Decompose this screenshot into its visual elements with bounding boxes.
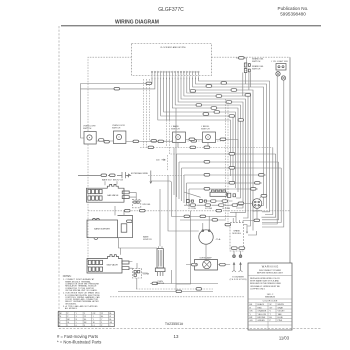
wires from upper valve fingers [129,192,136,199]
tiny labels under connector rows [188,208,231,210]
B3 label [171,125,180,131]
spark ignition switch plug pair upper [244,63,250,67]
oven light switch box [276,64,286,71]
wire from spark ign switch down [245,73,247,85]
wires to lower valve [120,248,147,273]
wire drops from pins to mid levels [167,120,177,154]
svg-text:GLGF377C: GLGF377C [158,7,184,13]
electronic range control ERC dashed box [132,44,212,76]
convection fan motor [252,199,262,213]
wire B3 to B4 with tags [186,138,203,141]
wire drops from left ERC pins [158,78,236,188]
tag left of spark module [225,223,231,226]
title underline / sheet top border [61,25,321,27]
wire into spark ignition switch [236,57,247,63]
lower gas valve assembly [87,255,122,273]
svg-text:5: 5 [76,322,77,324]
svg-text:CLOCK/ERC AND KEYPNL: CLOCK/ERC AND KEYPNL [160,46,187,49]
upper valve labels [102,179,124,186]
svg-text:12: 12 [101,313,103,315]
spark module output tags [231,247,245,250]
svg-text:5995398480: 5995398480 [280,12,306,17]
svg-text:1: 1 [67,325,68,327]
wires at oven lamp [186,264,230,266]
svg-text:SWITCH: SWITCH [112,128,121,130]
wire left run to oven light switches upper [81,78,153,84]
wire from fan motor left [236,202,252,205]
wire drop to door switch B1 [81,84,85,139]
svg-text:5: 5 [84,313,85,315]
gas valve upper assembly [87,184,125,202]
svg-text:# BAKE: # BAKE [171,125,179,128]
svg-text:* = Non-illustrated Parts: * = Non-illustrated Parts [57,339,101,344]
svg-text:ORIGINALLY. WIRES MUST BE: ORIGINALLY. WIRES MUST BE [250,285,280,288]
right side vertical feeder bundle [262,148,282,223]
svg-text:6: 6 [76,325,77,327]
spark ignition switch label lower [252,65,264,71]
svg-text:NOTES:: NOTES: [63,276,72,278]
oven lamp assembly [195,256,218,270]
horizontal distribution wires mid [140,148,281,190]
svg-text:30: 30 [67,322,69,324]
chassis boundary bottom dashed [110,296,244,298]
svg-text:BL: BL [101,316,103,318]
svg-text:BROWN: BROWN [258,317,266,319]
sheet bottom border [59,327,321,329]
small dashed connector box lower [132,269,149,278]
oven light switch B1 [84,132,96,145]
spark electrode left [232,262,236,272]
svg-text:COLOR CODE: COLOR CODE [263,301,278,303]
svg-text:YELLOW: YELLOW [258,314,266,316]
notes item 3 [63,305,98,310]
diagonal jumper wire [184,192,201,197]
burner outer housing box [117,215,132,237]
svg-text:INSULATION THICKNESS USED: INSULATION THICKNESS USED [250,282,282,285]
wires above burner housing [88,206,290,215]
svg-text:BL: BL [109,319,111,321]
wire from fan motor down [243,208,260,221]
wire B1 to B2 [96,140,113,142]
corner feeder verticals from component row [174,148,189,208]
B2 label [112,125,125,130]
wire from conn box to bottom runs [136,278,138,289]
svg-text:12: 12 [84,316,86,318]
svg-text:WHITE: WHITE [278,304,285,306]
grounding chain tags [101,174,115,177]
tag above fan motor [260,195,267,199]
svg-text:100: 100 [156,160,160,162]
spark module right loop wire [244,225,249,234]
svg-text:T#235501#: T#235501# [165,322,183,326]
terminal strip side box [227,193,235,197]
fuse on ground chain [78,172,128,178]
svg-text:GAS VALVE: GAS VALVE [107,194,119,197]
svg-text:30: 30 [59,316,61,318]
svg-text:2: 2 [109,325,110,327]
svg-text:COPPER ONLY.: COPPER ONLY. [250,288,266,290]
svg-text:TAN: TAN [278,313,282,316]
svg-text:SWITCH: SWITCH [201,129,210,131]
vertical feeders lower [160,108,257,292]
TB label arrow mid [156,159,165,162]
dashed run y141 [150,140,226,143]
svg-text:OVEN LAMP: OVEN LAMP [200,256,213,259]
svg-text:3: 3 [84,325,85,327]
spark module dashed box [230,218,244,251]
appliance chassis dashed boundary [88,57,290,269]
svg-text:CONN: CONN [143,274,150,276]
svg-text:W: W [109,316,111,318]
svg-text:GROUNDED.: GROUNDED. [63,303,77,305]
lower connection wires with tags [172,215,237,221]
sheet left border [58,26,60,329]
chassis ground arrow [128,174,131,177]
connector tags on fan wires [203,85,237,116]
svg-text:3: 3 [76,316,77,318]
svg-text:REPLACE WIRE WIRE COLOR: REPLACE WIRE WIRE COLOR [250,277,280,280]
right warning and color code table [248,263,292,330]
lower horizontal wires [118,282,218,293]
connector tag row lower [184,204,243,207]
notes item 1 [63,278,100,292]
svg-text:VIOLET: VIOLET [278,311,286,313]
oven motor M1 [199,216,221,260]
svg-text:IGNITOR: IGNITOR [143,239,152,241]
igniter dashed box upper [132,199,151,207]
extra tags on fan wires [190,82,251,122]
svg-text:(2 & 3 OF 4 PLCS): (2 & 3 OF 4 PLCS) [230,279,247,281]
svg-text:EXTERNAL WIRE: EXTERNAL WIRE [131,172,149,175]
svg-text:N CONN: N CONN [205,208,213,210]
svg-text:MODULE: MODULE [232,233,241,235]
B4 label [201,126,210,131]
svg-text:WITH SAME SIZE STYLE AND: WITH SAME SIZE STYLE AND [250,280,279,283]
wires from oven light down [262,76,284,227]
ERC connector pin strip P1 [151,71,199,79]
loop wire around valve area [151,181,172,217]
svg-text:24V IGN.: 24V IGN. [142,204,151,206]
svg-text:ON THE SPECIAL UNIT NO. LEADS: ON THE SPECIAL UNIT NO. LEADS. [63,289,98,292]
upper valve connector fingers [122,191,129,199]
tag at burner housing top [127,220,133,223]
svg-text:GREEN: GREEN [258,320,266,322]
tags at oven lamp [192,263,226,266]
svg-text:MINIMUM: MINIMUM [265,297,275,299]
svg-text:LK CONN: LK CONN [222,208,231,210]
wire right of ignitor down [176,211,190,284]
ignitor label right of housing [143,236,152,242]
oven burner box [87,218,118,239]
tags at mid run right ends [251,174,265,191]
oven light lamp 1 [276,72,280,76]
dashed vertical label J1 [167,155,169,171]
spark ignition switch label upper [252,57,264,63]
svg-text:BAKE BURNER: BAKE BURNER [94,228,110,231]
svg-text:Publication No.: Publication No. [278,6,309,11]
ground electrode marker [150,171,153,185]
bake selector switch B3 [173,132,186,143]
oven ignitor component [155,246,165,285]
svg-text:BL: BL [84,319,86,321]
svg-text:SWITCH: SWITCH [252,68,261,70]
dashed verticals to spark module [226,99,229,223]
connector tag on upper left wire [146,82,152,85]
broil selector switch B4 [203,132,216,143]
svg-text:-TLA-: -TLA- [216,238,222,241]
svg-text:11/03: 11/03 [279,336,290,341]
B3 B4 bottom stubs [178,143,208,148]
svg-text:L1: L1 [93,325,95,327]
svg-text:IGNITOR: IGNITOR [156,283,165,285]
wire left run to oven light switches lower [81,78,155,89]
svg-text:GRAY: GRAY [278,306,284,309]
notes item 2 [63,292,101,306]
dashed drop wires under ERC left [144,79,150,148]
svg-text:W A R N I N G: W A R N I N G [262,265,279,269]
tag between B1 B2 [99,139,110,143]
svg-text:SWITCH: SWITCH [83,128,92,130]
svg-text:SWITCH: SWITCH [171,129,180,131]
spark module output terminals [233,251,242,258]
svg-text:# OV. LIGHT SW.: # OV. LIGHT SW. [271,61,288,63]
svg-text:PINK: PINK [278,320,283,322]
svg-text:BROIL VLV: BROIL VLV [113,180,124,182]
svg-text:SWITCH: SWITCH [252,61,261,63]
connector tag on lower left wire [114,88,120,91]
svg-text:5: 5 [101,322,102,324]
svg-text:BEFORE SERVICING UNIT: BEFORE SERVICING UNIT [257,273,284,275]
svg-text:13: 13 [174,334,179,339]
svg-text:WIRING DIAGRAM: WIRING DIAGRAM [115,20,159,26]
wire B2 to B3 with tags [126,140,173,143]
spark electrode right [239,262,243,272]
wire B4 right with tags [216,138,239,148]
svg-text:1: 1 [93,316,94,318]
wire from housing bottom [119,238,158,248]
svg-text:L1 CONN: L1 CONN [188,208,196,210]
left legend table [58,312,114,327]
wire fan from ERC pins to right vertical bundle [172,78,269,231]
svg-text:BLUE: BLUE [278,317,284,319]
svg-text:30: 30 [93,322,95,324]
connector pair row upper [187,200,233,203]
spark electrodes label [230,277,247,282]
dashed ground wire to right [148,174,184,176]
svg-text:RED: RED [258,307,263,309]
tags on mid distribution wires [204,146,235,190]
tags on dashed run [148,146,196,149]
svg-text:BAKE VLV: BAKE VLV [102,179,112,182]
svg-text:BL: BL [109,313,111,315]
svg-text:W: W [270,304,272,306]
B1 label [83,126,96,131]
svg-text:GAS VALVE: GAS VALVE [107,264,119,267]
lower valve connector fingers [122,261,129,270]
svg-text:ALL MODELS.: ALL MODELS. [63,307,78,310]
oven light lamp 2 [281,76,285,80]
svg-text:ORANGE: ORANGE [258,310,267,313]
spark ignition switch plug pair lower [244,69,250,73]
svg-text:BLACK: BLACK [258,303,265,306]
oven door switch B2 [113,131,126,144]
mid terminal strip TB1 [210,190,226,196]
